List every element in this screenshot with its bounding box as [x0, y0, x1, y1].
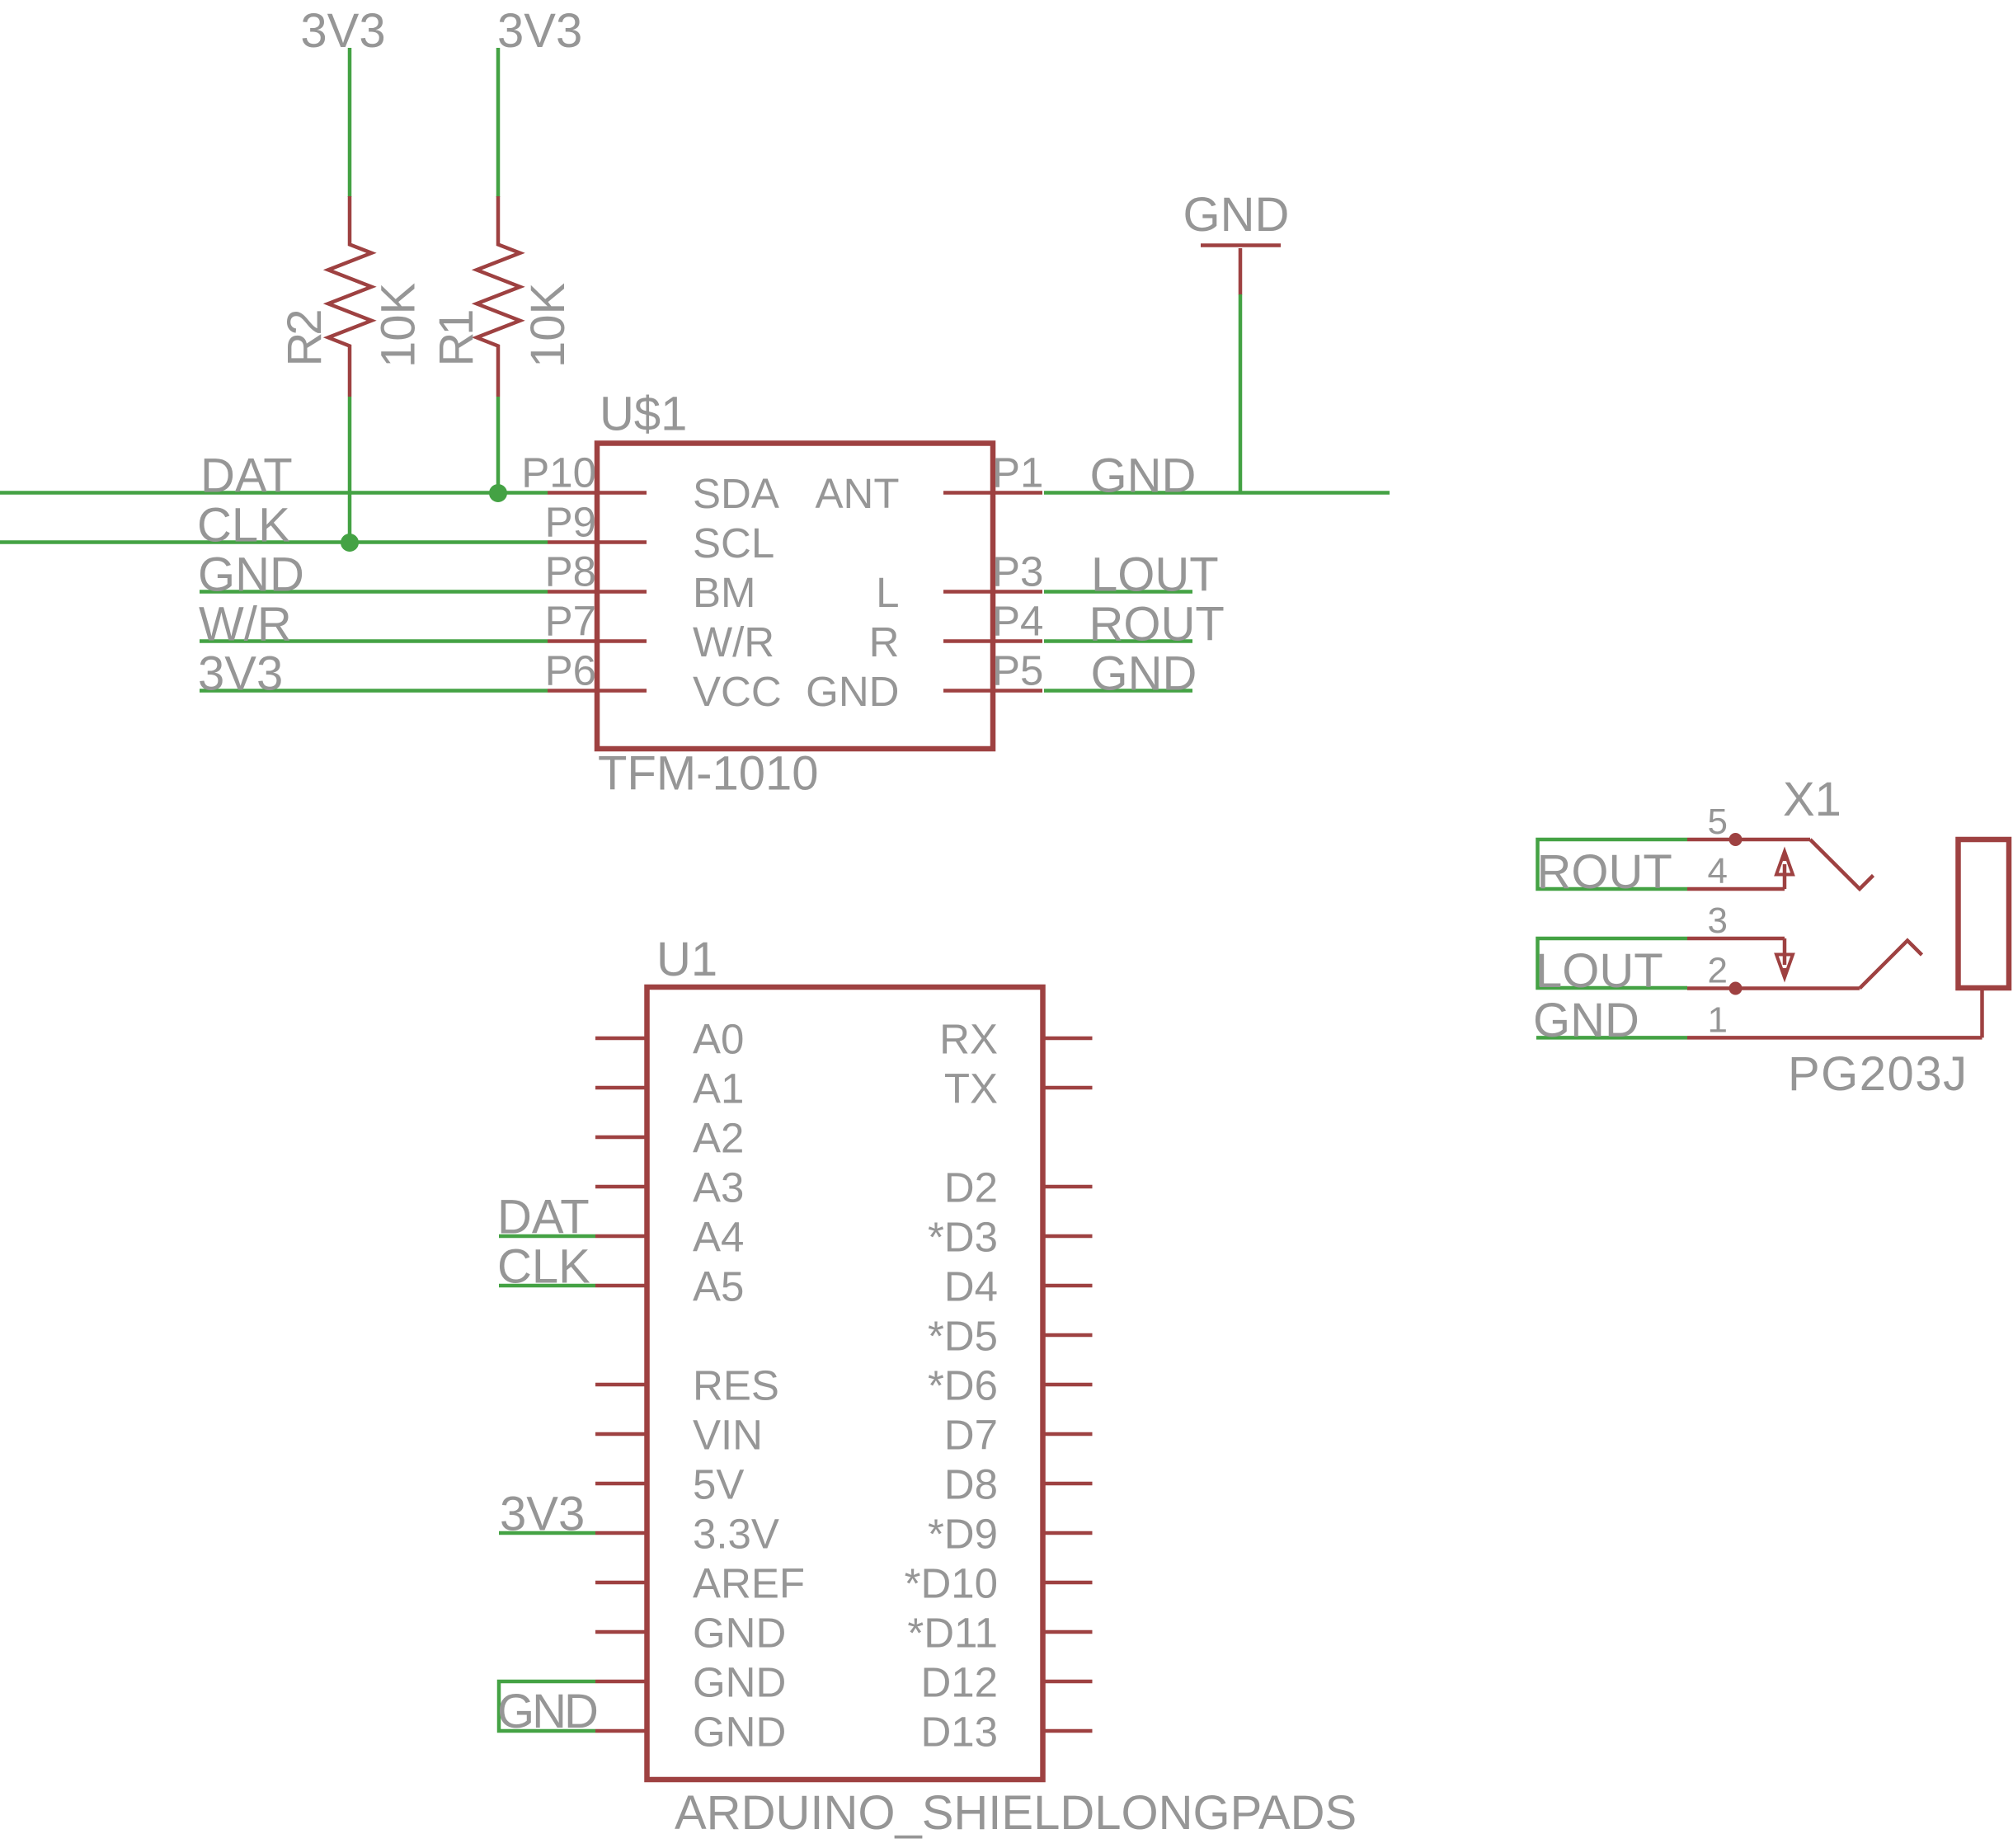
pin P4 R — [943, 639, 1042, 643]
net W/R wire — [200, 639, 548, 643]
svg-text:10K: 10K — [372, 282, 426, 368]
pin A2 — [595, 1136, 647, 1140]
svg-text:U1: U1 — [656, 933, 717, 986]
svg-text:TFM-1010: TFM-1010 — [598, 747, 819, 801]
jack GND label wire (pin 1) — [1536, 1036, 1687, 1040]
pin A4 — [595, 1234, 647, 1239]
svg-text:R: R — [869, 618, 900, 665]
pin 2 — [1687, 986, 1860, 990]
net label wire 3V3 (3.3V) — [499, 1531, 595, 1535]
pin 2 contact arm — [1860, 941, 1922, 989]
supply GND symbol top right — [1201, 246, 1281, 295]
junction CLK/R2 — [341, 534, 359, 552]
svg-text:3.3V: 3.3V — [693, 1511, 779, 1558]
pin 1 riser to sleeve — [1980, 988, 1984, 1037]
svg-text:5V: 5V — [693, 1461, 744, 1508]
svg-text:R2: R2 — [278, 309, 332, 367]
pin GND15 — [595, 1729, 647, 1733]
svg-text:GND: GND — [693, 1709, 786, 1756]
pin P5 GND — [943, 689, 1042, 693]
svg-text:CLK: CLK — [197, 499, 290, 553]
svg-text:P10: P10 — [521, 449, 596, 496]
net 3V3 wire — [200, 689, 548, 693]
pin 4 — [1687, 887, 1785, 891]
svg-text:P4: P4 — [992, 598, 1043, 645]
svg-text:RES: RES — [693, 1362, 779, 1409]
svg-text:A5: A5 — [693, 1263, 744, 1310]
svg-text:LOUT: LOUT — [1091, 548, 1219, 602]
pin 3.3V — [595, 1531, 647, 1535]
svg-text:DAT: DAT — [200, 449, 293, 503]
jack ROUT label U-wire (pins 5-4) — [1538, 839, 1688, 889]
svg-text:X1: X1 — [1783, 773, 1841, 826]
pin 3 — [1687, 937, 1785, 941]
pin A1 — [595, 1086, 647, 1090]
svg-text:RX: RX — [939, 1016, 998, 1063]
pin *D6 — [1043, 1383, 1093, 1387]
svg-text:U$1: U$1 — [600, 388, 687, 441]
wire 3V3 to R1 — [496, 48, 501, 197]
svg-text:*D10: *D10 — [905, 1560, 998, 1607]
net label wire DAT (A4) — [499, 1234, 595, 1239]
wire 3V3 to R2 — [348, 48, 352, 197]
wire R2 to CLK — [348, 397, 352, 543]
svg-text:ARDUINO_SHIELDLONGPADS: ARDUINO_SHIELDLONGPADS — [675, 1786, 1357, 1840]
pin *D9 — [1043, 1531, 1093, 1535]
jack LOUT label U-wire (pins 3-2) — [1538, 938, 1688, 988]
pin VIN — [595, 1432, 647, 1437]
svg-text:GND: GND — [497, 1685, 597, 1738]
wire R1 to DAT — [496, 397, 501, 493]
svg-text:A0: A0 — [693, 1016, 744, 1063]
svg-text:3V3: 3V3 — [300, 4, 385, 58]
net ANT/GND wire — [1044, 491, 1390, 495]
svg-text:GND: GND — [806, 668, 899, 715]
svg-text:AREF: AREF — [693, 1560, 805, 1607]
svg-text:LOUT: LOUT — [1536, 944, 1663, 998]
svg-text:GND: GND — [693, 1610, 786, 1657]
IC U1 ARDUINO_SHIELDLONGPADS box — [647, 987, 1043, 1780]
pin 5V — [595, 1482, 647, 1486]
svg-text:2: 2 — [1708, 951, 1728, 991]
pin AREF — [595, 1581, 647, 1585]
svg-text:CLK: CLK — [497, 1240, 590, 1294]
svg-text:VIN: VIN — [693, 1412, 763, 1459]
svg-text:P6: P6 — [545, 647, 596, 694]
junction DAT/R1 — [489, 484, 507, 502]
pin *D3 — [1043, 1234, 1093, 1239]
svg-text:D4: D4 — [944, 1263, 998, 1310]
pin TX — [1043, 1086, 1093, 1090]
resistor R2 — [328, 196, 372, 397]
svg-text:ANT: ANT — [816, 470, 900, 517]
svg-text:A3: A3 — [693, 1164, 744, 1211]
svg-text:GND: GND — [1183, 188, 1290, 242]
pin 5 — [1687, 838, 1810, 842]
svg-text:*D5: *D5 — [928, 1313, 998, 1360]
svg-text:P1: P1 — [992, 449, 1043, 496]
svg-text:4: 4 — [1708, 851, 1728, 891]
svg-text:PG203J: PG203J — [1788, 1047, 1968, 1101]
jack sleeve body — [1959, 839, 2010, 988]
pin D2 — [1043, 1185, 1093, 1189]
pin RES — [595, 1383, 647, 1387]
svg-text:BM: BM — [693, 569, 756, 616]
svg-text:D12: D12 — [920, 1659, 998, 1706]
svg-text:P7: P7 — [545, 598, 596, 645]
svg-text:SDA: SDA — [693, 470, 779, 517]
pin 3 switch arrow down — [1776, 938, 1793, 978]
svg-text:P5: P5 — [992, 647, 1043, 694]
pin RX — [1043, 1037, 1093, 1041]
pin GND14 — [595, 1680, 647, 1684]
svg-text:3V3: 3V3 — [500, 1488, 585, 1541]
svg-text:*D9: *D9 — [928, 1511, 998, 1558]
net ROUT wire — [1044, 639, 1192, 643]
junction pin 2 — [1729, 982, 1743, 995]
svg-text:1: 1 — [1708, 999, 1728, 1040]
net GND wire — [200, 590, 548, 594]
net LOUT wire — [1044, 590, 1192, 594]
svg-text:SCL: SCL — [693, 520, 774, 567]
pin P6 VCC — [548, 689, 647, 693]
svg-text:GND: GND — [1091, 647, 1197, 701]
svg-text:D7: D7 — [944, 1412, 998, 1459]
svg-text:A1: A1 — [693, 1065, 744, 1112]
pin *D11 — [1043, 1630, 1093, 1634]
pin P8 BM — [548, 590, 647, 594]
pin A5 — [595, 1284, 647, 1288]
svg-text:*D3: *D3 — [928, 1214, 998, 1261]
svg-text:GND: GND — [198, 548, 304, 602]
net GND U-wire (GND pins) — [499, 1681, 595, 1731]
pin D8 — [1043, 1482, 1093, 1486]
pin *D5 — [1043, 1333, 1093, 1338]
junction pin 5 — [1729, 833, 1743, 846]
svg-text:P3: P3 — [992, 548, 1043, 595]
svg-text:3: 3 — [1708, 900, 1728, 941]
wire GND drop — [1239, 294, 1243, 493]
svg-text:DAT: DAT — [497, 1191, 590, 1244]
svg-text:D8: D8 — [944, 1461, 998, 1508]
svg-text:W/R: W/R — [199, 598, 292, 651]
pin *D10 — [1043, 1581, 1093, 1585]
pin P1 ANT — [943, 491, 1042, 495]
net CLK wire — [0, 540, 548, 544]
pin P9 SCL — [548, 540, 647, 544]
pin 5 contact arm — [1810, 839, 1874, 889]
IC U$1 TFM-1010 box — [597, 444, 993, 750]
net DAT wire — [0, 491, 548, 495]
pin A0 — [595, 1037, 647, 1041]
svg-text:A4: A4 — [693, 1214, 744, 1261]
svg-text:GND: GND — [1533, 994, 1639, 1047]
pin 4 switch arrow up — [1776, 852, 1793, 890]
svg-text:W/R: W/R — [693, 618, 774, 665]
svg-text:GND: GND — [693, 1659, 786, 1706]
resistor R1 — [477, 196, 520, 397]
svg-text:TX: TX — [944, 1065, 998, 1112]
svg-text:A2: A2 — [693, 1115, 744, 1162]
pin P3 L — [943, 590, 1042, 594]
svg-text:*D11: *D11 — [907, 1610, 998, 1657]
svg-text:10K: 10K — [521, 282, 575, 368]
pin D12 — [1043, 1680, 1093, 1684]
svg-text:R1: R1 — [430, 309, 483, 367]
pin D7 — [1043, 1432, 1093, 1437]
svg-text:P9: P9 — [545, 499, 596, 546]
svg-text:*D6: *D6 — [928, 1362, 998, 1409]
net GND wire (P5) — [1044, 689, 1192, 693]
pin P7 W/R — [548, 639, 647, 643]
pin 1 — [1687, 1036, 1982, 1040]
svg-text:GND: GND — [1090, 449, 1197, 503]
pin D4 — [1043, 1284, 1093, 1288]
svg-text:ROUT: ROUT — [1089, 598, 1225, 651]
svg-text:D13: D13 — [920, 1709, 998, 1756]
svg-text:3V3: 3V3 — [198, 647, 283, 701]
pin GND13 — [595, 1630, 647, 1634]
svg-text:3V3: 3V3 — [497, 4, 582, 58]
svg-text:VCC: VCC — [693, 668, 782, 715]
svg-text:L: L — [876, 569, 899, 616]
svg-text:ROUT: ROUT — [1537, 845, 1672, 899]
svg-text:P8: P8 — [545, 548, 596, 595]
pin P10 SDA — [548, 491, 647, 495]
pin D13 — [1043, 1729, 1093, 1733]
svg-text:5: 5 — [1708, 802, 1728, 842]
svg-text:D2: D2 — [944, 1164, 998, 1211]
net label wire CLK (A5) — [499, 1284, 595, 1288]
pin A3 — [595, 1185, 647, 1189]
